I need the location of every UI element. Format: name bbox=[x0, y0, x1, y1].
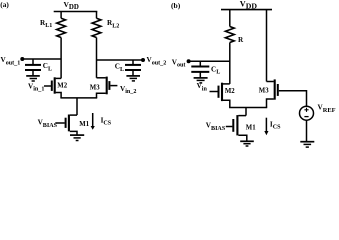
svg-text:(b): (b) bbox=[171, 1, 181, 10]
svg-text:Vout: Vout bbox=[172, 58, 186, 68]
transistor M3 bbox=[90, 77, 110, 98]
svg-text:VREF: VREF bbox=[318, 103, 336, 113]
wire R top lead bbox=[229, 10, 231, 27]
ground (below M1, a) bbox=[70, 135, 84, 140]
wire Vout_2 bbox=[97, 59, 144, 61]
svg-text:VBIAS: VBIAS bbox=[38, 119, 58, 129]
node V_BIAS label (b) bbox=[206, 121, 226, 131]
svg-text:M2: M2 bbox=[57, 82, 67, 89]
wire common source tail (a) bbox=[60, 97, 97, 99]
ground (below V_REF) bbox=[300, 142, 314, 147]
node Vout_1 label bbox=[1, 56, 21, 66]
wire Vin to M2 gate (b) bbox=[210, 91, 218, 93]
svg-text:M3: M3 bbox=[259, 87, 269, 94]
svg-text:M1: M1 bbox=[79, 121, 89, 128]
svg-text:M2: M2 bbox=[225, 88, 235, 95]
svg-text:ICS: ICS bbox=[270, 120, 281, 130]
svg-text:M1: M1 bbox=[246, 125, 256, 132]
transistor M3 (b) bbox=[259, 79, 278, 107]
svg-text:R: R bbox=[238, 36, 244, 44]
wire VDD rail to M3 drain (b) bbox=[266, 10, 268, 82]
resistor R bbox=[225, 27, 234, 43]
capacitor C_L (right, a) bbox=[115, 60, 141, 75]
svg-text:M3: M3 bbox=[90, 84, 100, 91]
node Vin_1 label bbox=[28, 82, 44, 92]
wire R_L1 top lead bbox=[60, 12, 62, 19]
svg-text:Vout_1: Vout_1 bbox=[1, 56, 21, 66]
node VDD label (b) bbox=[240, 0, 258, 10]
ground (below C_L, b) bbox=[194, 78, 208, 83]
node Vin label (b) bbox=[197, 82, 208, 92]
wire M3 gate to Vin_2 bbox=[110, 85, 117, 87]
transistor M2 (b) bbox=[219, 83, 236, 108]
resistor R_L2 bbox=[92, 18, 101, 37]
wire Vout_1 bbox=[22, 58, 61, 60]
wire VDD rail (b) bbox=[221, 9, 272, 11]
svg-text:VDD: VDD bbox=[64, 0, 79, 11]
wire Vout (b) bbox=[189, 60, 230, 62]
figure label (a) bbox=[0, 0, 9, 9]
voltage source V_REF bbox=[300, 103, 336, 120]
wire R_L1 bottom to M2 drain bbox=[60, 38, 62, 79]
svg-text:Vin: Vin bbox=[197, 82, 208, 92]
svg-text:CL: CL bbox=[43, 62, 52, 72]
svg-text:Vin_1: Vin_1 bbox=[28, 82, 44, 92]
node Vout junction dot (b) bbox=[187, 59, 191, 63]
svg-text:Vin_2: Vin_2 bbox=[120, 85, 136, 95]
current arrow I_CS (a) bbox=[91, 113, 112, 130]
wire common source tail (b) bbox=[229, 107, 267, 109]
transistor M1 (b) bbox=[233, 115, 256, 141]
svg-text:CL: CL bbox=[211, 65, 220, 75]
svg-text:(a): (a) bbox=[0, 0, 9, 9]
node VDD label (a) bbox=[64, 0, 79, 11]
svg-text:RL1: RL1 bbox=[40, 19, 52, 29]
transistor M2 bbox=[52, 77, 68, 98]
capacitor C_L (b) bbox=[191, 61, 220, 77]
wire tail to M1 drain (b) bbox=[245, 108, 247, 116]
node Vout_2 junction dot bbox=[141, 58, 145, 62]
wire tail to M1 drain bbox=[76, 98, 78, 115]
node Vout_1 junction dot bbox=[20, 57, 24, 61]
figure label (b) bbox=[171, 1, 181, 10]
svg-text:CL: CL bbox=[115, 63, 124, 73]
current arrow I_CS (b) bbox=[264, 118, 281, 136]
node V_BIAS label (a) bbox=[38, 119, 58, 129]
svg-text:ICS: ICS bbox=[101, 116, 112, 126]
wire VDD rail (a) bbox=[54, 11, 98, 13]
wire R_L2 bottom to M3 drain bbox=[96, 38, 98, 78]
ground (below M1, b) bbox=[240, 141, 254, 146]
wire R_L2 top lead bbox=[96, 12, 98, 19]
wire M3 gate to VREF (b) bbox=[279, 91, 307, 106]
ground (below right C_L) bbox=[126, 76, 140, 81]
capacitor C_L (left, a) bbox=[25, 59, 52, 75]
svg-text:VBIAS: VBIAS bbox=[206, 121, 226, 131]
wire VREF to ground bbox=[306, 120, 308, 141]
wire Vin_1 to M2 gate bbox=[44, 85, 51, 87]
svg-text:Vout_2: Vout_2 bbox=[147, 56, 167, 66]
node Vout label (b) bbox=[172, 58, 186, 68]
node Vout_2 label bbox=[147, 56, 167, 66]
wire R bottom to M2 drain (b) bbox=[229, 43, 231, 84]
node Vin_2 label bbox=[120, 85, 136, 95]
wire V_BIAS to M1 gate bbox=[55, 122, 64, 124]
resistor R_L1 bbox=[57, 18, 66, 37]
wire V_BIAS to M1 gate (b) bbox=[226, 126, 233, 128]
svg-text:RL2: RL2 bbox=[107, 19, 119, 29]
transistor M1 bbox=[66, 115, 90, 136]
ground (below left C_L) bbox=[26, 76, 40, 81]
